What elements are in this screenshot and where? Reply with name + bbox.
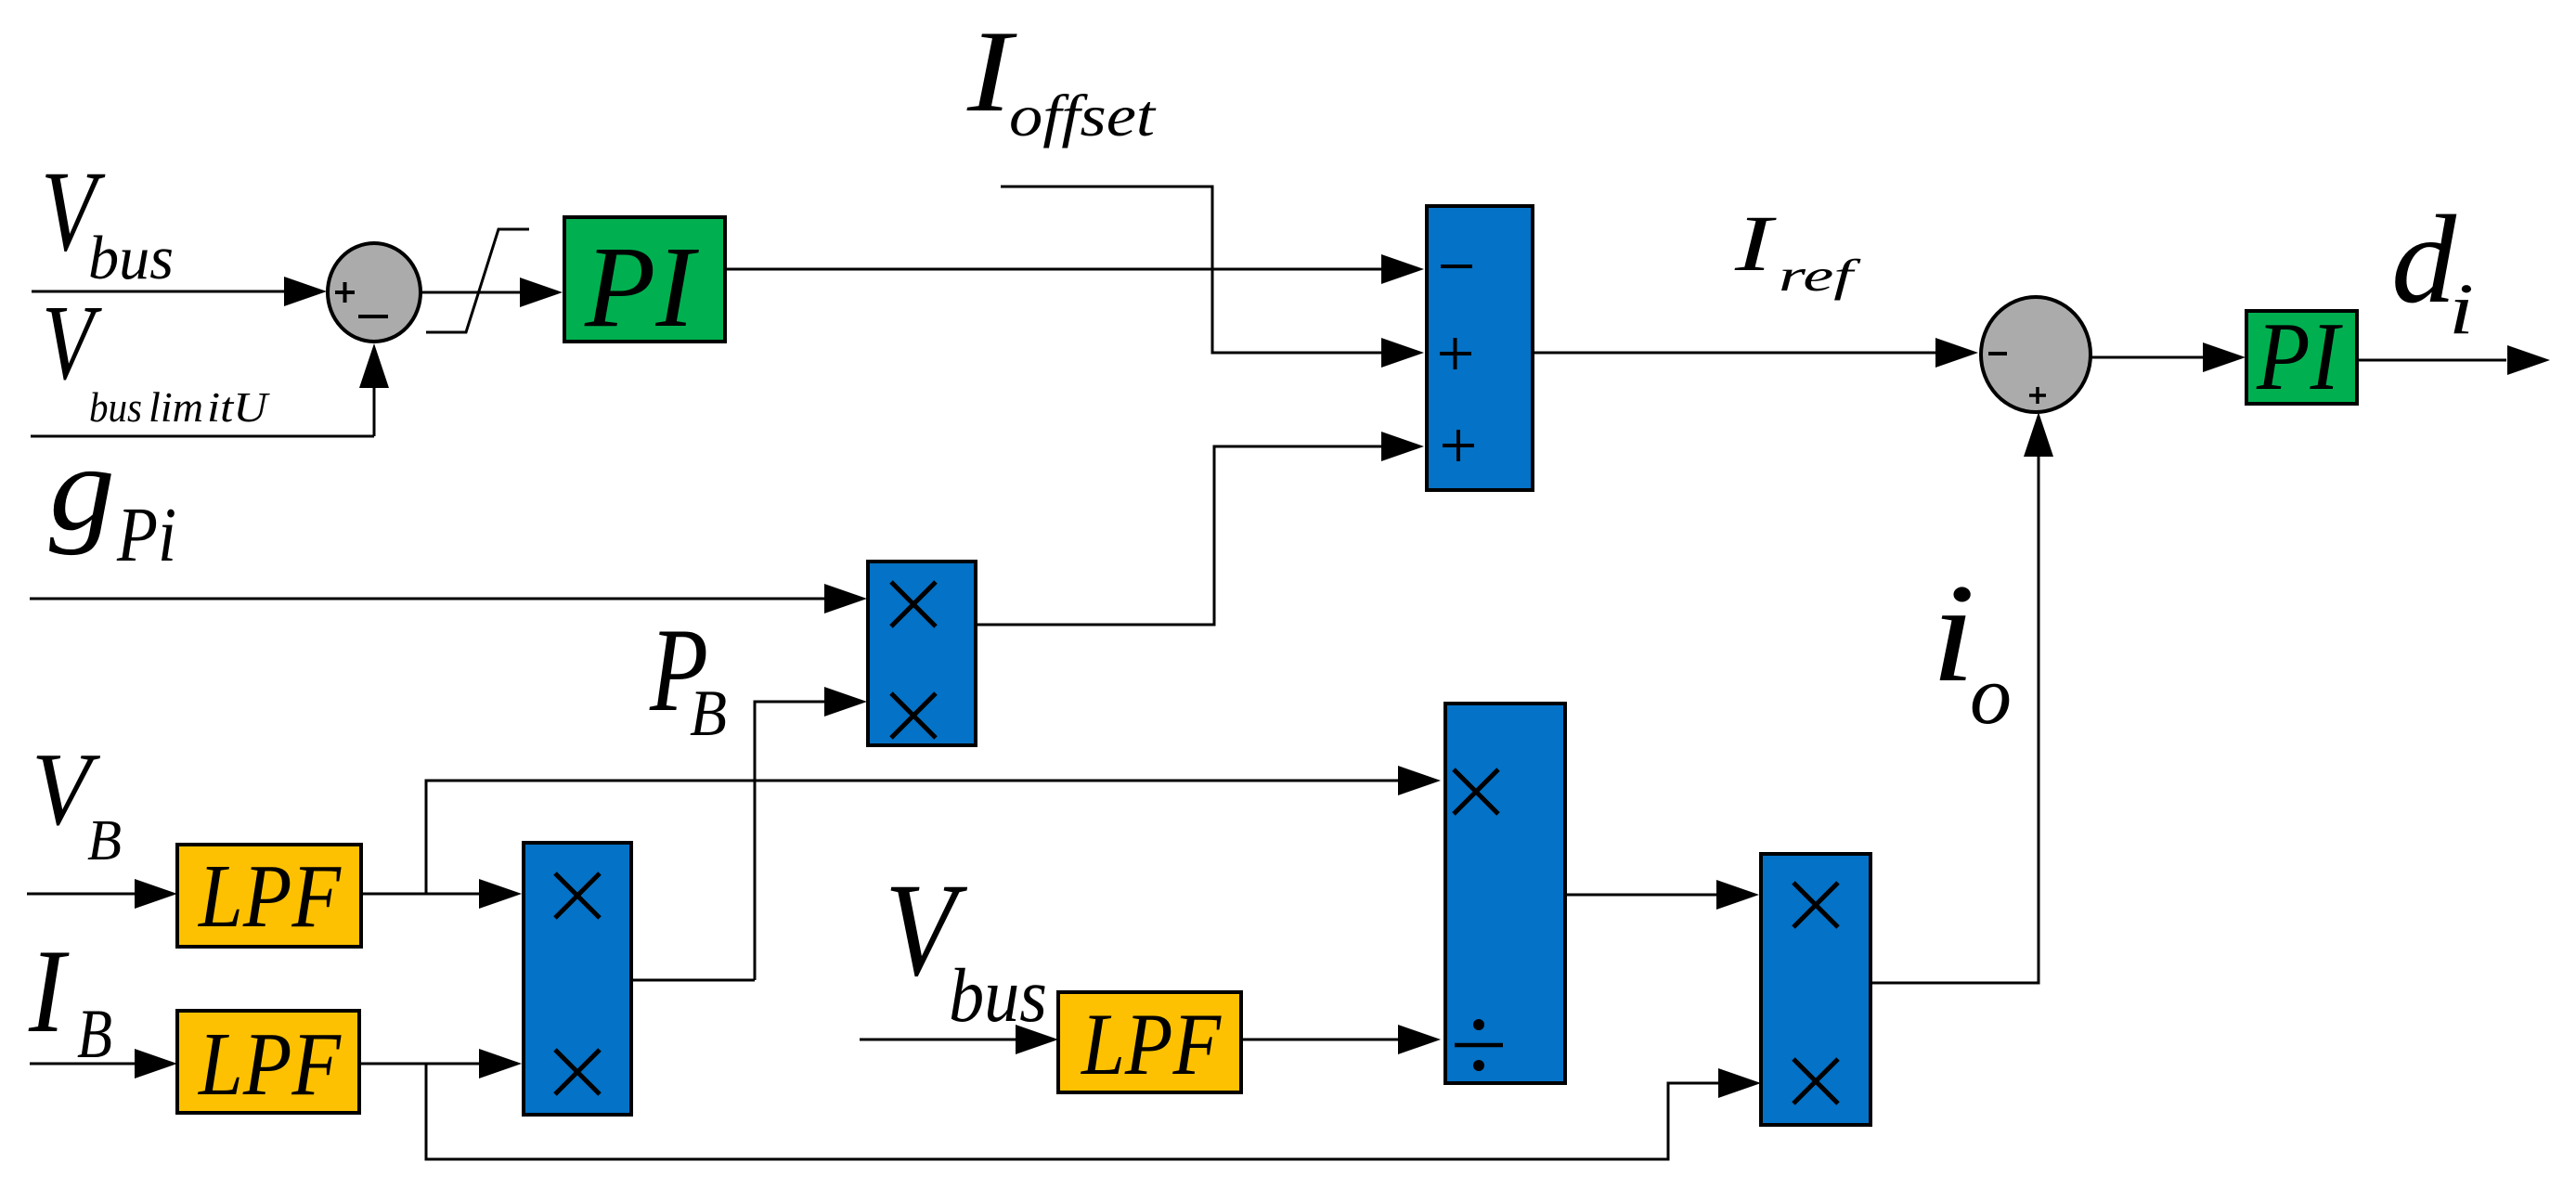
node PB label [649, 603, 727, 750]
block PI1 [564, 217, 725, 352]
wire io feedback [1871, 412, 2053, 983]
node VB label [32, 732, 122, 872]
svg-text:PI: PI [2256, 302, 2343, 410]
node VbuslimitU label [42, 284, 270, 431]
svg-text:LPF: LPF [197, 1014, 342, 1114]
svg-text:I: I [28, 924, 69, 1057]
svg-text:i: i [1931, 555, 1975, 711]
wire LPF2 to M2 [359, 1049, 522, 1078]
svg-text:d: d [2391, 190, 2457, 329]
block multiplier M3 [1761, 854, 1871, 1125]
svg-text:LPF: LPF [1080, 995, 1222, 1093]
wire VB filtered branch to divider [426, 766, 1441, 894]
node di label [2391, 190, 2474, 349]
saturation limiter [426, 229, 529, 332]
svg-text:I: I [1734, 199, 1777, 288]
wire Iref [1533, 338, 1978, 368]
block LPF3 [1058, 992, 1241, 1093]
block divider D1 [1445, 704, 1565, 1083]
wire VbuslimitU feedback [31, 343, 389, 436]
block LPF2 [177, 1011, 359, 1114]
svg-text:o: o [1970, 650, 2012, 742]
wire LPF1 to M2 [361, 879, 522, 909]
node Ioffset label [966, 7, 1158, 148]
svg-text:lim: lim [149, 384, 203, 431]
block multiplier M2 [524, 843, 631, 1115]
svg-text:g: g [49, 420, 115, 556]
svg-text:B: B [87, 809, 122, 872]
svg-text:itU: itU [207, 384, 270, 431]
svg-text:Pi: Pi [116, 492, 176, 578]
svg-text:B: B [77, 996, 112, 1073]
wire Vbus2 input [860, 1025, 1058, 1054]
wire D1 to M3 [1565, 880, 1759, 910]
wire IB filtered branch to M3 [426, 1064, 1761, 1159]
block PI2 [2246, 302, 2357, 410]
node Vbus2 label [885, 857, 1047, 1038]
wire multiplier M1 to sum plus2 [976, 432, 1424, 625]
wire S1 to PI1 [421, 278, 563, 307]
wire VB input [27, 879, 177, 909]
summing junction S2 [1981, 297, 2091, 412]
wire PI1 to sum minus [725, 254, 1424, 284]
svg-text:B: B [690, 678, 727, 750]
node Vbus label [41, 148, 174, 292]
summing junction S1 [328, 243, 421, 342]
wire di output [2357, 345, 2550, 375]
wire Ioffset to sum plus [1001, 187, 1424, 368]
svg-text:LPF: LPF [197, 846, 342, 946]
svg-text:ref: ref [1779, 250, 1862, 301]
svg-text:i: i [2449, 268, 2474, 349]
wire IB input [30, 1049, 177, 1078]
wire M2 output PB [631, 979, 755, 982]
block LPF1 [177, 845, 361, 947]
block multiplier M1 [868, 562, 976, 745]
node IB label [28, 924, 112, 1073]
node Iref label [1734, 199, 1862, 301]
wire gPi to M1 [30, 584, 867, 613]
wire PB to M1 [755, 687, 867, 980]
node gPi label [49, 420, 176, 578]
wire Vbus input [32, 277, 327, 306]
block sum3 [1427, 206, 1533, 490]
node io label [1931, 555, 2012, 742]
wire LPF3 to divider [1241, 1025, 1441, 1054]
wire S2 to PI2 [2091, 342, 2246, 372]
svg-text:offset: offset [1009, 83, 1158, 148]
svg-text:bus: bus [949, 952, 1047, 1038]
svg-text:bus: bus [88, 224, 174, 292]
svg-text:PI: PI [584, 224, 699, 352]
